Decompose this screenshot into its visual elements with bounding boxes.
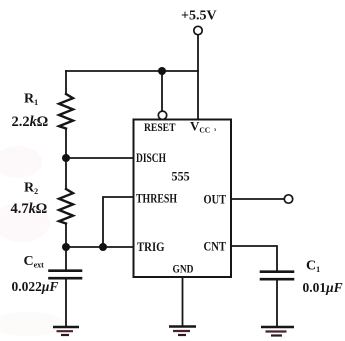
svg-text:Cext: Cext — [24, 254, 45, 270]
svg-text:555: 555 — [172, 169, 191, 184]
svg-text:DISCH: DISCH — [136, 151, 166, 165]
svg-text:VCC: VCC — [190, 119, 210, 135]
svg-text:2.2kΩ: 2.2kΩ — [12, 114, 49, 130]
svg-text:CNT: CNT — [204, 240, 227, 254]
svg-text:0.022μF: 0.022μF — [12, 279, 59, 294]
svg-text:THRESH: THRESH — [136, 192, 177, 206]
svg-text:OUT: OUT — [204, 193, 227, 207]
svg-text:R2: R2 — [24, 181, 38, 197]
svg-text:4.7kΩ: 4.7kΩ — [11, 201, 48, 217]
svg-text:RESET: RESET — [144, 122, 176, 134]
svg-text:C1: C1 — [306, 259, 320, 275]
svg-text:R1: R1 — [24, 92, 38, 108]
svg-text:+5.5V: +5.5V — [181, 9, 217, 24]
svg-text:TRIG: TRIG — [137, 240, 165, 254]
svg-text:GND: GND — [173, 262, 194, 276]
svg-text:0.01μF: 0.01μF — [303, 280, 343, 295]
